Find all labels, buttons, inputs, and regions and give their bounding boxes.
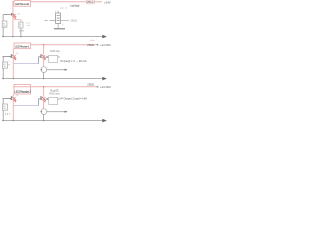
wire Q2 to box row2 <box>46 56 49 58</box>
pink note above rail row2 <box>90 39 95 41</box>
wire lavender link row2 <box>14 63 39 65</box>
node junction rail-collector row3 <box>43 86 44 87</box>
svg-text:250Ω: 250Ω <box>87 43 94 47</box>
node junction rail row2 right <box>43 78 44 79</box>
node junction right of Q2 row2 <box>46 56 48 58</box>
wire battery top lead row1 <box>57 11 59 13</box>
arrow head row1 <box>102 35 107 39</box>
wire emitter tap row1 <box>13 20 21 22</box>
wire emitter row2 left <box>12 58 14 79</box>
terminal tick rail row3 <box>97 86 99 88</box>
transistor Q2 row2 <box>40 54 45 60</box>
svg-text:10k: 10k <box>3 108 6 110</box>
wire left branch lower row3 <box>2 110 4 120</box>
node junction rail row3 right <box>43 120 44 121</box>
wire box right tick row3 <box>58 98 60 100</box>
svg-text:Loop Supply: Loop Supply <box>70 4 80 7</box>
resistor R1 row1 <box>2 21 7 28</box>
svg-text:IF (loop) = 4 → 20 mA: IF (loop) = 4 → 20 mA <box>61 59 87 63</box>
wire battery left lead row1 <box>50 20 56 22</box>
svg-text:250Ω: 250Ω <box>71 19 77 23</box>
svg-text:LED Receive 2: LED Receive 2 <box>15 90 32 94</box>
arrow head row2 <box>102 77 107 81</box>
node junction rail row2 left <box>3 78 4 79</box>
transistor Q2 row3 <box>40 96 45 102</box>
wire box right tick row2 <box>58 56 60 58</box>
svg-text:IF Output 1 load = N/A: IF Output 1 load = N/A <box>61 96 88 100</box>
wire emitter row3 mid <box>43 100 45 109</box>
node junction rail-collector row2 <box>43 44 44 45</box>
transistor Q1 row2 <box>11 53 20 60</box>
svg-text:100R: 100R <box>19 30 25 32</box>
transistor Q1 row3 <box>11 95 20 102</box>
wire left branch upper row1 <box>2 15 4 21</box>
svg-text:10k: 10k <box>3 66 6 68</box>
node junction rail row3 left <box>3 120 4 121</box>
label box LED Transmit row1 <box>14 1 31 7</box>
svg-text:+24V: +24V <box>104 0 111 4</box>
node junction rail row1 left <box>2 36 3 37</box>
node junction right of Q2 row3 <box>46 98 48 100</box>
wire top rail row2 <box>31 44 98 46</box>
svg-text:250mA: 250mA <box>87 1 94 4</box>
svg-text:+24 VDC: +24 VDC <box>100 85 111 89</box>
wire bottom rail row2 <box>2 78 103 80</box>
arrow head meter output row2 <box>65 69 68 71</box>
wire left branch lower row2 <box>2 68 4 78</box>
wire emitter row2 mid <box>43 58 45 67</box>
wire top rail row1 <box>12 1 102 3</box>
resistor R2 row1 <box>19 22 25 32</box>
wire base row1 <box>3 14 11 16</box>
meter circle row2 <box>41 67 47 73</box>
ground row1 <box>54 28 65 30</box>
wire Q2 to box row3 <box>46 98 49 100</box>
wire below meter row2 <box>43 73 45 79</box>
svg-text:4k7: 4k7 <box>5 114 11 116</box>
wire top rail row3 <box>13 86 97 88</box>
wire below meter row3 <box>43 115 45 121</box>
svg-text:250Ω: 250Ω <box>87 83 94 87</box>
resistor R5 row3 <box>2 104 7 110</box>
svg-text:1k: 1k <box>19 26 21 28</box>
wire meter output row3 <box>47 111 65 113</box>
wire R2 to rail row1 <box>20 28 22 37</box>
wire base row2 <box>2 56 10 58</box>
wire collector/emitter vertical row1 <box>12 2 14 37</box>
label box LED Receive row3 <box>14 84 31 94</box>
node junction rail row1 right <box>20 36 21 37</box>
battery V1 row1 <box>56 13 61 23</box>
terminal tick rail row2 <box>97 44 99 46</box>
node junction rail row3 mid <box>13 120 14 121</box>
wire collector row3 mid <box>43 87 45 97</box>
svg-text:24 V: 24 V <box>60 8 67 10</box>
wire battery bottom lead row1 <box>57 23 59 28</box>
node base junction row3 <box>10 98 11 99</box>
svg-text:4N35 opto: 4N35 opto <box>50 50 61 53</box>
load box row3 <box>49 97 58 104</box>
svg-text:LED Receive 1: LED Receive 1 <box>15 45 30 49</box>
wire battery right lead row1 <box>61 20 69 22</box>
transistor Q1 row1 <box>11 13 21 19</box>
arrow head meter output row3 <box>65 111 68 113</box>
wire collector row2 mid <box>43 45 45 55</box>
wire left branch lower row1 <box>2 27 4 36</box>
wire left branch upper row2 <box>2 57 4 62</box>
load box row2 <box>49 55 58 62</box>
wire bottom rail row1 <box>2 36 103 38</box>
wire meter output row2 <box>47 69 65 71</box>
resistor R3 row2 <box>2 62 7 68</box>
svg-text:4N35 opto: 4N35 opto <box>49 92 61 95</box>
wire base row3 <box>2 98 10 100</box>
wire lavender link row3 <box>14 105 39 107</box>
meter circle row3 <box>41 109 47 115</box>
node junction rail row2 mid <box>13 78 14 79</box>
wire emitter row3 left <box>12 100 14 121</box>
wire dash left of battery row1 <box>45 19 48 21</box>
node junction rail row1 mid <box>12 36 13 37</box>
fuse label on rail row1 <box>86 0 94 4</box>
wire left branch upper row3 <box>2 99 4 104</box>
svg-text:LED Transmit 1: LED Transmit 1 <box>15 2 30 6</box>
note 4-20mA row1 <box>26 22 31 27</box>
svg-text:+24 VDC: +24 VDC <box>100 43 111 47</box>
arrow head row3 <box>102 119 107 123</box>
wire bottom rail row3 <box>2 120 103 122</box>
wire collector row2 left <box>12 49 14 55</box>
node base junction row2 <box>10 56 11 57</box>
label box LED Receive row2 <box>14 43 31 49</box>
wire collector row3 left <box>12 94 14 97</box>
